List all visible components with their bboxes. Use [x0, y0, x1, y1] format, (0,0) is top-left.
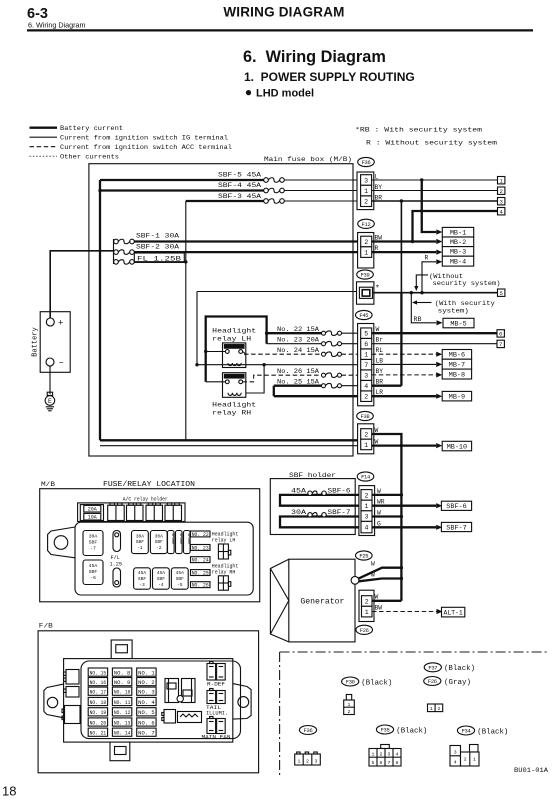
node box 5: [498, 289, 505, 296]
fuse 45A SBF-5: [171, 568, 188, 589]
svg-text:MB-6: MB-6: [449, 352, 465, 360]
label box FL 1.25B: [134, 253, 184, 262]
A/C relay holder box: [78, 503, 185, 522]
svg-text:5: 5: [372, 760, 375, 766]
node box 2: [498, 187, 505, 194]
legend line: battery current (thick): [30, 127, 58, 129]
wire: SBF-5 row (battery thick, left): [100, 179, 265, 181]
svg-text:F26: F26: [360, 628, 369, 634]
spare fuse 2: [176, 531, 183, 554]
svg-text:LB: LB: [376, 358, 384, 365]
F45 pin 1: [361, 349, 372, 360]
node box 1: [498, 177, 505, 184]
node MB-8: [442, 369, 471, 379]
svg-text:relay LH: relay LH: [212, 335, 251, 342]
A/C relay 1: [108, 505, 125, 520]
wire: LH relay output to No.24 row: [243, 352, 246, 355]
F14 pin 1: [361, 500, 372, 511]
SBF holder box: [270, 479, 355, 535]
wire: LB coil-supply row to F45 pin 7: [197, 364, 361, 366]
svg-text:MB-3: MB-3: [450, 249, 466, 257]
svg-text:W: W: [371, 572, 375, 579]
terminal bracket for SBF-1/SBF-2/FL: [113, 239, 115, 264]
svg-text:SBF: SBF: [136, 539, 145, 545]
svg-text:Other currents: Other currents: [60, 154, 119, 162]
wire: SBF-1 row to F12 pin 2: [134, 240, 360, 242]
M/B headlight relay LH socket: [218, 544, 228, 559]
svg-text:NO. 17: NO. 17: [90, 690, 107, 696]
svg-text:30A: 30A: [291, 509, 306, 516]
svg-text:30A: 30A: [136, 533, 145, 539]
svg-text:relay RH: relay RH: [212, 409, 251, 416]
F/B fuse NO.3: [137, 687, 156, 695]
M/B headlight relay RH socket: [218, 576, 228, 590]
wire: FL row: [134, 261, 186, 263]
svg-text:E: E: [48, 398, 52, 405]
node MB-10: [442, 441, 471, 451]
svg-text:6: 6: [380, 760, 383, 766]
svg-text:1: 1: [364, 352, 368, 359]
svg-text:NO. 21: NO. 21: [90, 731, 107, 737]
relay LH coil: [228, 363, 241, 366]
fuse No. 23: [326, 341, 338, 346]
svg-text:L: L: [375, 173, 379, 180]
wire: LB row to MB-7: [372, 363, 437, 365]
connector F30 oval: [342, 677, 359, 686]
wire: F14 pin2 W to bus: [372, 494, 401, 496]
wire: BR row to box 3: [372, 200, 498, 202]
fuse No. 25: [326, 383, 338, 388]
F/B top tab: [111, 640, 132, 659]
svg-text:2: 2: [464, 757, 467, 763]
node SBF-7: [441, 522, 471, 531]
svg-text:No. 26 15A: No. 26 15A: [277, 368, 319, 375]
svg-text:(Black): (Black): [396, 727, 427, 735]
svg-text:4: 4: [454, 760, 457, 766]
svg-text:SBF: SBF: [157, 576, 166, 582]
svg-text:6: 6: [364, 341, 368, 348]
F/B center connector 2: [182, 679, 196, 703]
generator terminal: [351, 576, 359, 584]
wire: BR row to main vertical: [372, 385, 402, 387]
svg-text:F35: F35: [381, 728, 390, 734]
fuse 45A SBF-6: [83, 560, 103, 585]
generator pulley: [270, 559, 288, 642]
F45 pin 7: [361, 359, 372, 370]
F26 pin 1: [362, 606, 373, 617]
F14 pin 2: [361, 490, 372, 501]
wire: WR row to SBF-6: [372, 505, 436, 507]
svg-text:-3: -3: [139, 582, 145, 588]
F/B fuse NO.9: [112, 678, 131, 686]
F/B fuse NO.2: [137, 678, 156, 686]
A/C fuse 10A: [84, 513, 101, 520]
wire: LH relay left terminal link: [206, 351, 226, 353]
wire: main battery vertical (BR to security row): [400, 293, 402, 386]
connector F37 oval: [424, 663, 441, 672]
F/B body: [64, 659, 233, 743]
fuse SBF-1 30A: [118, 239, 129, 244]
wire: RL row to MB-6 (dashed): [372, 353, 437, 355]
wire: generator W upper: [359, 568, 402, 579]
generator body: [289, 559, 355, 642]
svg-text:3: 3: [388, 752, 391, 758]
svg-text:SBF-4 45A: SBF-4 45A: [218, 182, 261, 189]
wire: bus tail to F26: [400, 579, 402, 601]
svg-text:+: +: [58, 319, 63, 329]
svg-text:NO. 11: NO. 11: [114, 700, 131, 706]
wire: main vertical bus down to generator: [400, 446, 402, 579]
svg-text:No. 24 15A: No. 24 15A: [277, 347, 319, 354]
connector F45 shell: [358, 324, 374, 406]
svg-text:RB: RB: [414, 316, 422, 323]
M/B fuse box body: [75, 522, 253, 595]
svg-text:2: 2: [365, 492, 369, 499]
F/B fuse NO.19: [88, 708, 107, 716]
wire: MB-1 feed from L row: [422, 180, 436, 232]
svg-text:1: 1: [365, 609, 369, 616]
headlight relay RH: [223, 373, 246, 398]
F/B fuse NO.8: [112, 668, 131, 676]
svg-text:(Black): (Black): [361, 679, 392, 687]
wire: No.26 row to F45 pin 3: [342, 374, 361, 376]
svg-text:1: 1: [372, 752, 375, 758]
svg-text:SBF: SBF: [138, 576, 147, 582]
M/B mounting tab: [48, 527, 75, 558]
svg-text:Headlight: Headlight: [212, 328, 256, 335]
node MB-2: [442, 237, 473, 247]
svg-text:SBF: SBF: [155, 539, 164, 545]
wire: BW dashed to ALT-1: [372, 611, 437, 613]
fuse SBF-2 30A: [118, 250, 129, 255]
F/B fuse NO.17: [88, 687, 107, 695]
svg-text:SBF-7: SBF-7: [446, 524, 466, 532]
svg-text:No. 25 15A: No. 25 15A: [277, 378, 319, 385]
F/B left mounting bracket: [44, 684, 64, 718]
svg-text:7: 7: [388, 760, 391, 766]
svg-text:3: 3: [315, 758, 318, 764]
node box 6: [497, 330, 504, 337]
F/B lower center connector 2: [178, 712, 202, 723]
F/B relay TAIL ILLUMI.: [207, 691, 216, 704]
svg-text:1: 1: [364, 250, 368, 257]
junction: FL tap on SBF-3 drop: [184, 260, 187, 263]
svg-text:SBF: SBF: [89, 540, 98, 546]
wire: holder row 1 (to F14 pin 2): [280, 495, 361, 506]
svg-text:2: 2: [306, 758, 309, 764]
spare fuse 3: [184, 531, 191, 554]
wire: No.24 row (RL, dashed ACC): [244, 353, 322, 355]
svg-text:MB-1: MB-1: [450, 230, 466, 238]
svg-text:No. 22 15A: No. 22 15A: [277, 326, 319, 333]
wire: No.26 row (BY dashed): [243, 375, 323, 382]
connector F39 oval: [357, 270, 374, 279]
headlight relay LH: [223, 343, 246, 368]
fuse SBF-6 45A: [312, 491, 322, 496]
fuse 30A SBF-7: [83, 531, 103, 556]
svg-text:F34: F34: [462, 729, 471, 735]
A/C relay 2: [127, 505, 144, 520]
svg-text:NO. 20: NO. 20: [90, 720, 107, 726]
F26 pinout icon: [428, 704, 443, 712]
svg-text:2: 2: [364, 199, 368, 206]
battery: [40, 312, 70, 373]
connector F38 oval: [357, 411, 374, 420]
F/B small connector B: [66, 687, 79, 698]
wire: BW row to MB-2: [372, 240, 437, 242]
svg-text:A/C relay holder: A/C relay holder: [123, 497, 168, 503]
F36 pin 2: [361, 196, 372, 207]
svg-text:R-DEF: R-DEF: [207, 682, 225, 688]
F/B center round post: [177, 696, 183, 702]
fusible link slot lower: [113, 568, 121, 587]
fuse No. 22: [326, 331, 338, 336]
wire: RH relay left terminal link: [206, 381, 226, 383]
svg-text:1: 1: [364, 442, 368, 449]
connector F26 oval: [356, 625, 373, 634]
F/B bottom tab: [110, 742, 130, 761]
svg-text:NO. 10: NO. 10: [114, 690, 131, 696]
svg-text:No. 23 20A: No. 23 20A: [277, 337, 319, 344]
svg-text:relay RH: relay RH: [212, 570, 236, 576]
wire: SBF-3 row (battery thick, left): [186, 200, 265, 202]
junction: coil return tap on LB row: [262, 363, 265, 366]
F35 pinout icon: [381, 745, 390, 749]
svg-text:45A: 45A: [138, 570, 147, 576]
connector F39 shell: [357, 282, 374, 304]
connector F36 oval (bottom): [299, 726, 316, 735]
svg-text:BY: BY: [376, 368, 384, 375]
wire: SBF-2 row to F12 pin 1: [134, 251, 360, 253]
fuse No. 24: [326, 352, 338, 357]
svg-text:SPARE: SPARE: [186, 533, 190, 545]
svg-text:ALT-1: ALT-1: [444, 609, 463, 616]
F/B fuse NO.4: [137, 697, 156, 705]
F/B section frame: [38, 631, 259, 773]
wire: security row to box 5: [373, 292, 498, 294]
svg-text:45A: 45A: [157, 570, 166, 576]
battery + terminal: [46, 318, 54, 326]
F/B fuse NO.10: [112, 687, 131, 695]
M/B fuse label box NO. 26: [191, 582, 211, 588]
junction: F38 W join: [400, 444, 403, 447]
junction: SBF-4 tap on left bus: [98, 189, 101, 192]
F34 pinout icon: [450, 746, 461, 767]
wire: MB-5 drop with RB: [411, 293, 436, 323]
wire: No.23 row (Br): [267, 343, 322, 345]
wire: F14 pin3 W to bus: [372, 515, 401, 517]
svg-text:1: 1: [473, 757, 476, 763]
wire: bottom battery bus: [100, 439, 358, 441]
svg-text:MB-7: MB-7: [449, 361, 465, 369]
ground symbol: [47, 392, 52, 395]
F36 pin 1: [361, 185, 372, 196]
F/B fuse NO.16: [88, 678, 107, 686]
wire: vertical from BR row down to security node: [400, 201, 402, 293]
fuse 45A SBF-3: [134, 568, 151, 589]
svg-text:F/L: F/L: [111, 555, 120, 561]
svg-text:system): system): [438, 307, 469, 314]
wire: BY row to box 2: [372, 190, 498, 192]
svg-text:Headlight: Headlight: [212, 402, 256, 409]
svg-text:WIRING DIAGRAM: WIRING DIAGRAM: [223, 5, 344, 20]
node MB-7: [442, 359, 471, 369]
svg-text:1: 1: [365, 503, 369, 510]
F/B fuse NO.1: [137, 668, 156, 676]
svg-text:NO. 15: NO. 15: [90, 670, 107, 676]
svg-text:2: 2: [364, 394, 368, 401]
svg-text:NO. 2: NO. 2: [138, 680, 155, 686]
svg-text:Br: Br: [376, 337, 384, 344]
svg-text:SBF-6: SBF-6: [446, 503, 466, 511]
svg-text:4: 4: [365, 525, 369, 532]
svg-text:W: W: [371, 561, 375, 568]
svg-text:MAIN FAN: MAIN FAN: [202, 735, 231, 741]
svg-text:SPARE: SPARE: [178, 533, 182, 545]
svg-text:30A: 30A: [155, 533, 164, 539]
svg-text:-7: -7: [90, 546, 96, 552]
svg-text:NO. 13: NO. 13: [114, 720, 131, 726]
F/B lower center connector 1: [164, 710, 176, 724]
svg-text:MB-8: MB-8: [449, 371, 465, 379]
svg-text:NO. 26: NO. 26: [192, 583, 209, 589]
junction: IG drop on LB row: [195, 363, 198, 366]
svg-text:R : Without security system: R : Without security system: [366, 140, 497, 148]
F/B fuse NO.14: [112, 728, 131, 736]
svg-text:3: 3: [364, 177, 368, 184]
svg-text:Current from ignition switch A: Current from ignition switch ACC termina…: [60, 144, 232, 152]
svg-text:3: 3: [365, 514, 369, 521]
M/B fuse label box NO. 22: [191, 531, 211, 537]
svg-text:BU01-01A: BU01-01A: [514, 767, 548, 774]
junction on L row: [420, 178, 423, 181]
wire: battery - to ground: [49, 366, 51, 394]
svg-text:–: –: [59, 358, 64, 368]
F/B small connector A: [66, 670, 79, 685]
svg-text:1: 1: [348, 702, 351, 708]
svg-text:(Gray): (Gray): [444, 679, 471, 687]
header rule: [27, 29, 533, 31]
svg-text:BW: BW: [375, 234, 383, 241]
node MB-1: [442, 227, 473, 237]
F/B inner fuse panel: [81, 661, 241, 739]
svg-text:RL: RL: [376, 347, 384, 354]
svg-text:NO. 6: NO. 6: [138, 720, 155, 726]
F45 pin 3: [361, 370, 372, 381]
svg-text:2: 2: [500, 188, 503, 195]
svg-text:F36: F36: [304, 728, 313, 734]
fuse No. 26: [326, 373, 338, 378]
svg-text:SBF-6: SBF-6: [328, 488, 351, 495]
svg-text:BW: BW: [375, 604, 383, 611]
wire: No.22 row to F45 pin 5: [342, 332, 361, 334]
svg-text:(With security: (With security: [435, 300, 495, 307]
svg-text:LHD model: LHD model: [256, 88, 314, 100]
M/B fuse label box NO. 23: [191, 545, 211, 551]
svg-text:6: 6: [499, 331, 502, 338]
svg-text:SBF-5 45A: SBF-5 45A: [218, 171, 261, 178]
relay RH coil: [228, 393, 241, 396]
fusible link slot upper: [113, 531, 121, 552]
svg-text:NO. 23: NO. 23: [192, 545, 209, 551]
F36 pin 3: [361, 175, 372, 186]
F45 pin 4: [361, 380, 372, 391]
F45 pin 5: [361, 328, 372, 339]
svg-text:NO. 16: NO. 16: [90, 680, 107, 686]
svg-text:3: 3: [454, 750, 457, 756]
F/B relay R-DEF: [207, 664, 216, 681]
A/C fuse 20A: [84, 505, 101, 512]
F/B fuse NO.6: [137, 718, 156, 726]
svg-text:relay LH: relay LH: [212, 538, 236, 544]
svg-text:MB-9: MB-9: [449, 393, 465, 401]
wire: main battery vertical bus (left): [99, 180, 101, 440]
svg-text:1.25: 1.25: [110, 562, 122, 568]
wire: IG feed to F39 square: [197, 291, 359, 293]
svg-text:45A: 45A: [89, 563, 98, 569]
junction: box-4 branch on BW row: [411, 240, 414, 243]
F/B center connector 1: [165, 679, 179, 703]
svg-text:5: 5: [364, 331, 368, 338]
svg-text:F25: F25: [359, 554, 368, 560]
svg-text:NO. 14: NO. 14: [114, 731, 131, 737]
node MB-5: [443, 318, 474, 328]
node box 3: [498, 198, 505, 205]
connector F14 shell: [359, 486, 375, 536]
svg-text:F36: F36: [362, 160, 371, 166]
svg-text:30A: 30A: [89, 534, 98, 540]
wire: F38 pin1 W to MB-10: [372, 444, 437, 446]
svg-text:1: 1: [364, 188, 368, 195]
connector F26 shell: [359, 590, 374, 621]
wire: F38 pin2 W to vertical: [372, 434, 402, 446]
connector F34 oval (bottom): [457, 726, 474, 735]
svg-text:Headlight: Headlight: [212, 531, 239, 537]
wire: L row to box 1: [372, 179, 498, 181]
svg-text:45A: 45A: [291, 488, 306, 495]
fuse 30A SBF-1: [132, 531, 149, 554]
fuse FL 1.25B: [118, 260, 129, 265]
M/B fuse label box NO. 25: [191, 570, 211, 576]
svg-text:NO. 19: NO. 19: [90, 710, 107, 716]
svg-text:F37: F37: [428, 665, 437, 671]
svg-text:F14: F14: [361, 475, 370, 481]
svg-text:Battery current: Battery current: [60, 125, 123, 133]
connector F36 oval: [358, 157, 375, 166]
svg-text:2: 2: [437, 706, 440, 712]
fuse SBF-4: [268, 188, 279, 193]
svg-text:SBF: SBF: [89, 569, 98, 575]
wire: BY row to MB-8 (dashed): [372, 374, 437, 376]
F12 pin 2: [361, 236, 372, 247]
svg-text:1: 1: [298, 758, 301, 764]
svg-text:7: 7: [364, 362, 368, 369]
svg-text:FUSE/RELAY LOCATION: FUSE/RELAY LOCATION: [103, 481, 195, 489]
svg-text:ILLUMI.: ILLUMI.: [206, 710, 228, 716]
legend line: IG terminal current (thin): [30, 136, 58, 138]
svg-text:20A: 20A: [88, 507, 97, 513]
svg-text:R: R: [375, 245, 379, 252]
wire: SBF-5 row to F36 pin 3: [284, 179, 361, 181]
wire: W row to box 6 (battery): [372, 332, 497, 334]
connector F12 oval: [358, 219, 375, 228]
F/B fuse NO.15: [88, 668, 107, 676]
wire: No.24 row to F45 pin 1: [342, 353, 361, 355]
F/B relay MAIN FAN: [207, 719, 216, 734]
svg-text:SBF-2 30A: SBF-2 30A: [136, 243, 179, 250]
wire: No.25/LR link: [273, 386, 275, 397]
svg-text:3: 3: [500, 199, 503, 206]
